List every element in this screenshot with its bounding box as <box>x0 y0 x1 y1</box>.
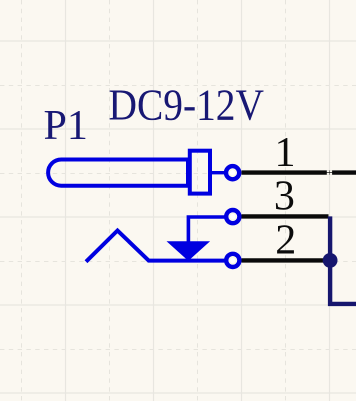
pin hotspot hints <box>229 169 236 176</box>
wire pin2 horizontal <box>242 258 325 262</box>
connector P1 barrel <box>48 160 188 186</box>
junction dot <box>323 253 338 268</box>
wire pin1 to right edge <box>242 170 356 174</box>
svg-text:P1: P1 <box>44 103 88 149</box>
connector P1 body rectangle <box>190 151 210 194</box>
pin 1 circle <box>226 166 239 179</box>
pin 1 stub <box>212 171 226 174</box>
svg-text:3: 3 <box>274 174 295 220</box>
pin 2 circle <box>226 254 239 267</box>
pin 3 internal wire <box>188 217 224 242</box>
svg-text:2: 2 <box>275 217 296 263</box>
pin 2 internal wire with zigzag <box>86 231 225 262</box>
switch triangle <box>169 242 208 260</box>
wire pin3 horizontal <box>242 214 329 218</box>
pin 3 circle <box>226 210 239 223</box>
svg-text:DC9-12V: DC9-12V <box>109 81 265 130</box>
svg-text:1: 1 <box>275 130 296 176</box>
wire gap artifact on pin1 wire <box>327 170 332 175</box>
wire vertical net with elbow to right edge <box>330 216 356 304</box>
